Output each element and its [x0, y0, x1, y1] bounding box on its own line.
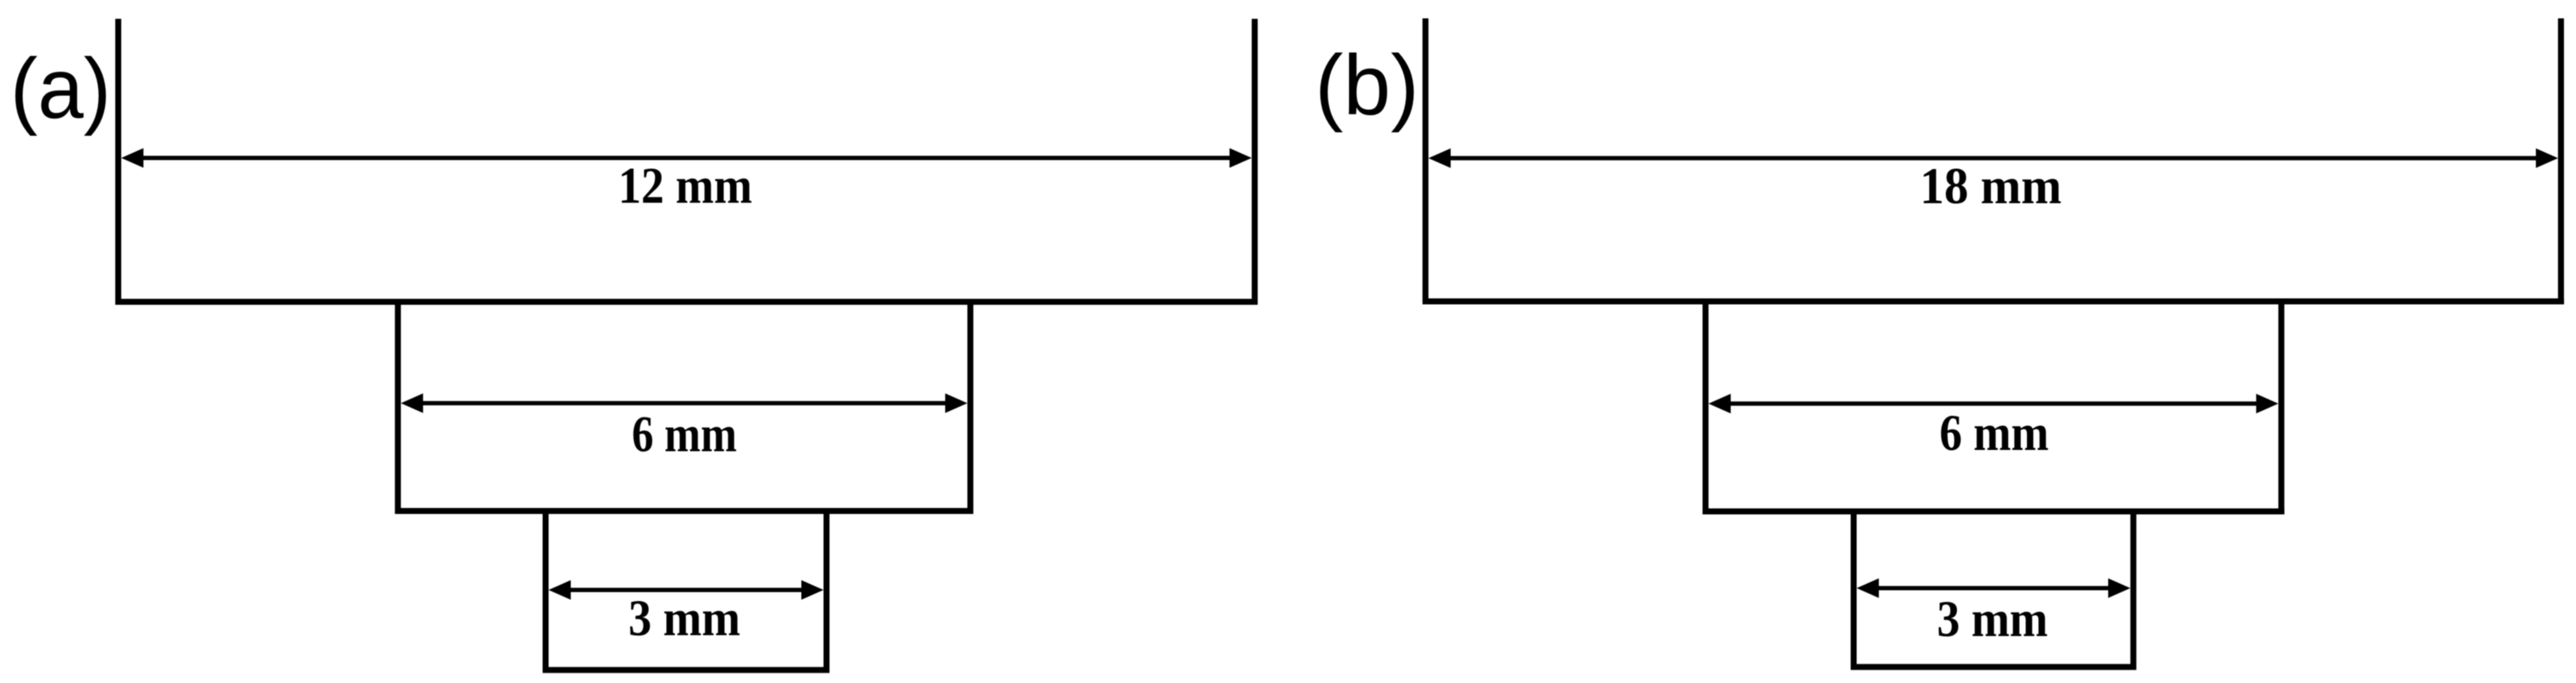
svg-text:6 mm: 6 mm: [1940, 405, 2049, 461]
svg-text:3 mm: 3 mm: [628, 590, 740, 646]
svg-text:12 mm: 12 mm: [618, 158, 752, 214]
svg-text:(a): (a): [10, 41, 111, 137]
svg-text:18 mm: 18 mm: [1920, 158, 2062, 214]
svg-text:(b): (b): [1315, 38, 1419, 133]
svg-text:3 mm: 3 mm: [1937, 591, 2048, 647]
svg-text:6 mm: 6 mm: [632, 406, 737, 463]
